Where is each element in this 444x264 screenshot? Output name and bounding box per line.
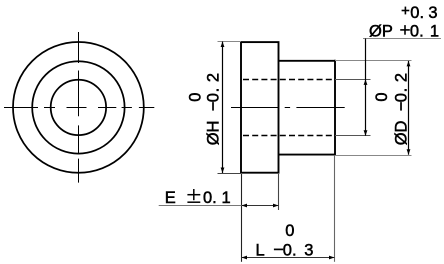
svg-text:ØH: ØH (205, 121, 223, 146)
dim H label text rotated (205, 73, 223, 145)
front view inner circle (bore dia P) (51, 80, 106, 135)
dim P dimension line vertical (365, 39, 367, 136)
side view bore hidden line top (243, 79, 335, 81)
dim H extension line top (218, 41, 242, 43)
dim H arrow up (221, 42, 225, 48)
svg-text:0: 0 (205, 93, 223, 102)
svg-text:2: 2 (205, 73, 223, 82)
dim L minus sign (274, 248, 283, 250)
svg-text:0: 0 (393, 93, 411, 102)
dim H arrow down (221, 168, 225, 174)
front view middle circle (body dia D) (32, 61, 124, 153)
dim D arrow down (407, 149, 411, 155)
dim P extension line top (335, 79, 371, 81)
dim L arrow right (329, 256, 335, 260)
dim P lower tolerance plus sign (400, 25, 410, 35)
dim E dimension line (242, 205, 279, 207)
dim D label text rotated (393, 73, 411, 145)
dim L right extension line (334, 156, 336, 262)
front view outer circle (flange dia H) (13, 42, 144, 173)
dim E arrow right (273, 204, 279, 208)
dim E left extension line (shared with dim L) (241, 174, 243, 262)
svg-text:0.: 0. (283, 242, 297, 260)
side view centerline (231, 107, 345, 109)
svg-text:0: 0 (186, 93, 204, 102)
dim E plus-minus sign (187, 189, 200, 202)
svg-text:3: 3 (304, 242, 313, 260)
svg-text:0.: 0. (410, 22, 424, 40)
svg-text:.: . (205, 88, 223, 93)
dim P arrow up (364, 79, 368, 85)
dim H extension line bottom (218, 173, 242, 175)
side view flange rectangle (241, 42, 279, 173)
dim H dimension line (222, 42, 224, 174)
svg-text:ØP: ØP (369, 22, 393, 40)
side view body cylinder top edge (279, 60, 336, 62)
dim D arrow up (407, 61, 411, 67)
dim D extension line top (335, 60, 412, 62)
svg-text:ØD: ØD (393, 120, 411, 145)
front view vertical centerline (78, 32, 80, 183)
svg-text:2: 2 (393, 73, 411, 82)
svg-text:0: 0 (373, 92, 391, 101)
svg-text:3: 3 (428, 4, 437, 22)
svg-text:0.: 0. (203, 189, 217, 207)
dim P leader horizontal (363, 38, 441, 40)
front view horizontal centerline (4, 107, 154, 109)
dim L arrow left (242, 256, 248, 260)
svg-text:1: 1 (430, 22, 439, 40)
svg-text:E: E (165, 189, 176, 207)
svg-text:.: . (393, 88, 411, 93)
side view body cylinder bottom edge (279, 154, 336, 156)
dim E arrow left (242, 204, 248, 208)
svg-text:0: 0 (285, 222, 294, 240)
svg-text:0.: 0. (410, 4, 424, 22)
dim P arrow down (364, 130, 368, 136)
dim D dimension line (408, 61, 410, 155)
svg-text:1: 1 (222, 189, 231, 207)
side view body cylinder right edge (334, 60, 336, 156)
side view bore hidden line bottom (243, 135, 335, 137)
dim P extension line bottom (335, 135, 371, 137)
dim L dimension line (242, 257, 335, 259)
dim P upper tolerance plus sign (402, 7, 410, 15)
svg-text:L: L (256, 242, 265, 260)
dim D extension line bottom (335, 155, 412, 157)
dim E underline leader (159, 205, 242, 207)
dim E right extension line (278, 174, 280, 210)
